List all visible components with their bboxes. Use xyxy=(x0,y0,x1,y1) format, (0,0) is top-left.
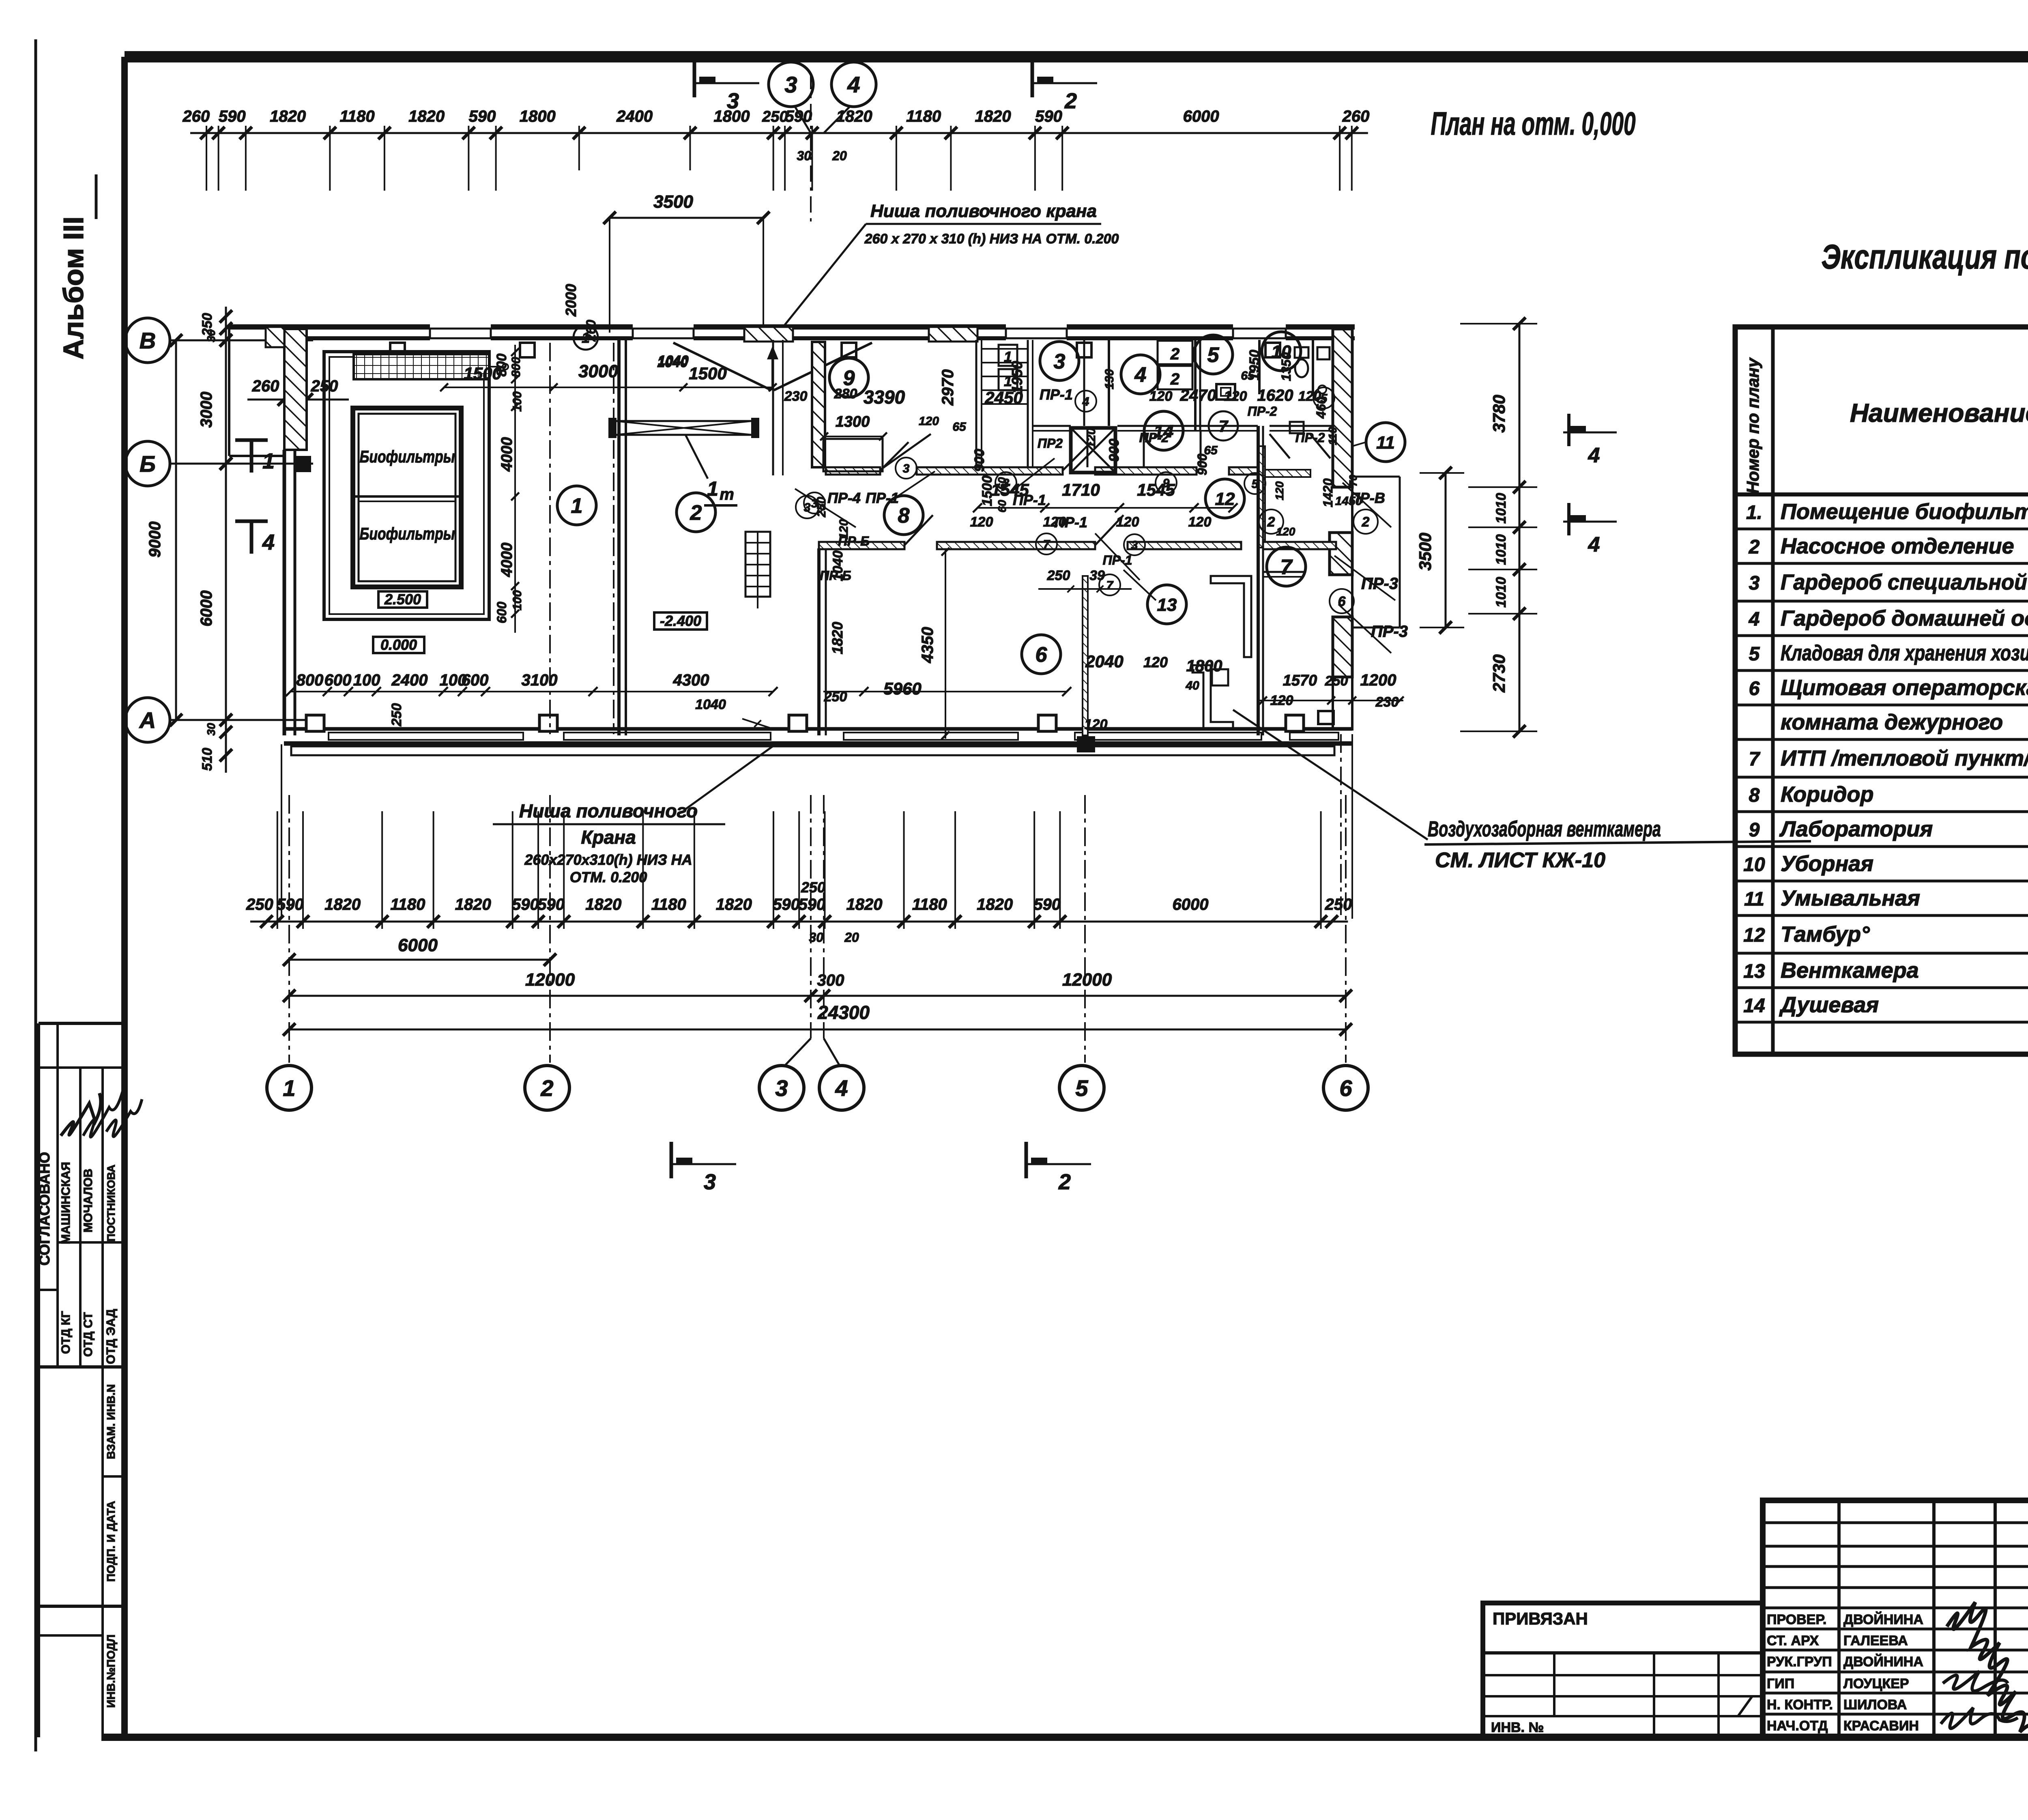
svg-text:590: 590 xyxy=(1035,107,1062,125)
svg-text:Альбом III: Альбом III xyxy=(58,217,89,360)
svg-text:комната дежурного: комната дежурного xyxy=(1781,710,2003,735)
svg-text:590: 590 xyxy=(512,896,539,913)
svg-text:3: 3 xyxy=(784,72,797,97)
svg-text:ВЗАМ. ИНВ.N: ВЗАМ. ИНВ.N xyxy=(105,1384,117,1459)
svg-text:Гардероб специальной одежды: Гардероб специальной одежды xyxy=(1781,570,2028,595)
svg-text:4350: 4350 xyxy=(919,627,937,664)
svg-text:260: 260 xyxy=(252,377,279,395)
svg-text:5960: 5960 xyxy=(883,679,921,698)
svg-text:12000: 12000 xyxy=(1062,970,1112,990)
svg-text:11: 11 xyxy=(1744,889,1764,910)
svg-text:4: 4 xyxy=(847,72,860,97)
svg-text:ЛОУЦКЕР: ЛОУЦКЕР xyxy=(1843,1676,1909,1691)
svg-text:СТ. АРХ: СТ. АРХ xyxy=(1767,1633,1819,1648)
svg-text:5: 5 xyxy=(1075,1075,1088,1101)
svg-text:65: 65 xyxy=(952,420,967,434)
svg-text:8: 8 xyxy=(898,504,910,528)
svg-text:ПР-В: ПР-В xyxy=(1349,490,1385,506)
svg-text:70: 70 xyxy=(1347,475,1359,486)
svg-text:ОТД СТ: ОТД СТ xyxy=(82,1312,95,1357)
svg-text:1040: 1040 xyxy=(695,697,726,712)
svg-text:600: 600 xyxy=(324,671,352,689)
svg-text:7: 7 xyxy=(1106,579,1114,592)
svg-text:13: 13 xyxy=(1743,961,1765,982)
svg-text:Гардероб домашней одежды: Гардероб домашней одежды xyxy=(1781,606,2028,631)
svg-text:6000: 6000 xyxy=(1183,107,1219,125)
svg-text:12: 12 xyxy=(1215,489,1235,509)
svg-text:1350: 1350 xyxy=(1279,352,1293,381)
svg-text:3000: 3000 xyxy=(198,392,215,428)
svg-text:1180: 1180 xyxy=(390,896,425,913)
svg-text:1010: 1010 xyxy=(1493,577,1509,608)
svg-text:20: 20 xyxy=(832,148,847,163)
svg-text:120: 120 xyxy=(1224,389,1247,404)
svg-text:1010: 1010 xyxy=(1493,534,1509,565)
svg-text:13: 13 xyxy=(1157,595,1177,615)
svg-text:60: 60 xyxy=(996,500,1008,513)
svg-text:Кладовая для хранения хозинвен: Кладовая для хранения хозинвентаря xyxy=(1781,641,2028,665)
svg-text:12: 12 xyxy=(1743,925,1765,946)
svg-text:РУК.ГРУП: РУК.ГРУП xyxy=(1767,1654,1832,1670)
svg-text:КРАСАВИН: КРАСАВИН xyxy=(1843,1718,1919,1734)
svg-text:6: 6 xyxy=(1035,643,1048,667)
svg-text:3: 3 xyxy=(1131,539,1138,552)
svg-text:120: 120 xyxy=(1188,514,1212,530)
svg-text:1: 1 xyxy=(283,1075,295,1101)
svg-text:т: т xyxy=(720,486,734,503)
svg-text:ПР-3: ПР-3 xyxy=(1361,575,1398,593)
svg-text:7: 7 xyxy=(1219,417,1229,435)
svg-text:ПР-2: ПР-2 xyxy=(1248,404,1277,419)
svg-text:30: 30 xyxy=(797,148,811,163)
svg-text:Крана: Крана xyxy=(581,827,636,848)
svg-text:Душевая: Душевая xyxy=(1779,993,1879,1017)
svg-text:Щитовая операторская и: Щитовая операторская и xyxy=(1781,676,2028,700)
svg-text:230: 230 xyxy=(1375,694,1399,710)
svg-text:1820: 1820 xyxy=(408,107,445,125)
svg-text:1820: 1820 xyxy=(324,896,361,913)
svg-text:1040: 1040 xyxy=(657,355,688,370)
svg-text:30: 30 xyxy=(205,723,217,736)
svg-text:3: 3 xyxy=(775,1075,788,1101)
svg-text:2.500: 2.500 xyxy=(384,591,421,608)
svg-text:4300: 4300 xyxy=(673,671,709,689)
svg-text:24300: 24300 xyxy=(817,1002,870,1023)
svg-text:1300: 1300 xyxy=(836,413,870,430)
svg-text:9000: 9000 xyxy=(146,522,164,558)
svg-text:Б: Б xyxy=(140,451,156,477)
svg-text:ПР-3: ПР-3 xyxy=(1371,623,1408,640)
svg-text:1820: 1820 xyxy=(585,896,621,913)
svg-text:110: 110 xyxy=(1326,427,1339,445)
svg-text:ШИЛОВА: ШИЛОВА xyxy=(1843,1697,1907,1713)
svg-text:120: 120 xyxy=(1273,481,1286,500)
svg-text:3: 3 xyxy=(727,89,739,113)
svg-text:3: 3 xyxy=(1749,573,1760,594)
svg-text:ПОСТНИКОВА: ПОСТНИКОВА xyxy=(105,1165,117,1242)
svg-text:2: 2 xyxy=(1170,370,1179,388)
svg-text:1820: 1820 xyxy=(716,896,752,913)
svg-text:1200: 1200 xyxy=(1360,671,1396,689)
svg-text:НАЧ.ОТД: НАЧ.ОТД xyxy=(1767,1718,1828,1734)
svg-text:60: 60 xyxy=(996,477,1008,490)
svg-text:3: 3 xyxy=(903,462,910,475)
svg-text:6000: 6000 xyxy=(198,591,215,627)
svg-text:2: 2 xyxy=(1064,89,1077,113)
svg-text:600: 600 xyxy=(462,671,489,689)
svg-text:6: 6 xyxy=(1339,1075,1352,1101)
svg-text:2: 2 xyxy=(1362,514,1370,530)
svg-text:В: В xyxy=(140,328,156,353)
svg-text:510: 510 xyxy=(200,748,215,771)
svg-text:ГАЛЕЕВА: ГАЛЕЕВА xyxy=(1843,1633,1908,1648)
svg-text:250: 250 xyxy=(1047,568,1070,583)
svg-text:1820: 1820 xyxy=(455,896,491,913)
svg-text:260: 260 xyxy=(1342,107,1370,125)
svg-text:ПР2: ПР2 xyxy=(1038,436,1063,451)
svg-text:Н. КОНТР.: Н. КОНТР. xyxy=(1767,1697,1833,1713)
svg-text:ДВОЙНИНА: ДВОЙНИНА xyxy=(1843,1612,1923,1627)
svg-text:1180: 1180 xyxy=(340,107,375,125)
svg-text:5: 5 xyxy=(1207,344,1220,367)
svg-text:300: 300 xyxy=(817,971,844,989)
svg-text:6000: 6000 xyxy=(1173,896,1209,913)
svg-text:11: 11 xyxy=(1376,433,1395,453)
svg-text:590: 590 xyxy=(773,896,800,913)
svg-text:ПРИВЯЗАН: ПРИВЯЗАН xyxy=(1493,1609,1588,1628)
svg-text:Воздухозаборная венткамера: Воздухозаборная венткамера xyxy=(1428,817,1661,841)
svg-text:590: 590 xyxy=(537,896,565,913)
svg-text:1545: 1545 xyxy=(1137,480,1175,499)
svg-text:ПР-Б: ПР-Б xyxy=(820,568,851,583)
svg-text:4: 4 xyxy=(1588,444,1600,467)
svg-text:1180: 1180 xyxy=(906,107,941,125)
svg-text:4: 4 xyxy=(1134,363,1147,387)
svg-text:ИТП /тепловой пункт/.: ИТП /тепловой пункт/. xyxy=(1781,746,2028,771)
svg-text:260 х 270 х 310 (h) НИЗ НА ОТ: 260 х 270 х 310 (h) НИЗ НА ОТМ. 0.200 xyxy=(864,231,1119,247)
svg-text:Экспликация помещений: Экспликация помещений xyxy=(1822,238,2028,276)
svg-text:100: 100 xyxy=(511,590,524,610)
svg-text:1820: 1820 xyxy=(846,896,883,913)
svg-text:230: 230 xyxy=(784,389,808,404)
svg-text:1820: 1820 xyxy=(975,107,1011,125)
svg-text:590: 590 xyxy=(785,107,812,125)
svg-text:100: 100 xyxy=(353,671,380,689)
svg-text:2000: 2000 xyxy=(563,284,579,317)
svg-text:30: 30 xyxy=(205,329,217,342)
svg-text:1: 1 xyxy=(582,329,590,346)
svg-text:250: 250 xyxy=(1325,673,1348,689)
svg-text:3000: 3000 xyxy=(578,361,618,381)
svg-text:1180: 1180 xyxy=(912,896,947,913)
svg-text:14: 14 xyxy=(1743,995,1765,1017)
svg-text:800: 800 xyxy=(509,357,523,377)
svg-text:ПР-1: ПР-1 xyxy=(1013,492,1046,508)
svg-text:65: 65 xyxy=(1241,369,1255,382)
svg-text:7: 7 xyxy=(1280,556,1293,579)
svg-text:120: 120 xyxy=(1143,654,1168,670)
svg-text:250: 250 xyxy=(801,879,825,896)
svg-text:120: 120 xyxy=(1116,514,1139,530)
svg-text:1800: 1800 xyxy=(520,107,556,125)
svg-text:ПОДП. И ДАТА: ПОДП. И ДАТА xyxy=(105,1501,117,1581)
svg-text:120: 120 xyxy=(1149,389,1173,404)
svg-text:900: 900 xyxy=(972,449,987,472)
svg-text:120: 120 xyxy=(1085,428,1098,448)
svg-text:4: 4 xyxy=(835,1075,848,1101)
svg-text:Умывальная: Умывальная xyxy=(1781,886,1920,911)
svg-text:1820: 1820 xyxy=(836,107,872,125)
svg-text:План на отм. 0,000: План на отм. 0,000 xyxy=(1431,105,1636,142)
svg-text:1500: 1500 xyxy=(689,364,726,383)
svg-text:Коридор: Коридор xyxy=(1781,782,1873,807)
svg-text:250: 250 xyxy=(815,497,828,518)
svg-text:Биофильтры: Биофильтры xyxy=(360,524,455,543)
svg-text:ПРОВЕР.: ПРОВЕР. xyxy=(1767,1612,1826,1627)
svg-text:4000: 4000 xyxy=(498,543,516,578)
svg-text:1820: 1820 xyxy=(829,622,846,654)
svg-text:Венткамера: Венткамера xyxy=(1781,958,1919,983)
svg-text:ПР-4: ПР-4 xyxy=(827,490,861,506)
svg-text:250: 250 xyxy=(762,108,788,125)
svg-text:Уборная: Уборная xyxy=(1781,852,1873,876)
svg-text:1800: 1800 xyxy=(1186,657,1222,675)
svg-text:250: 250 xyxy=(1325,896,1352,913)
svg-text:590: 590 xyxy=(798,896,825,913)
svg-text:590: 590 xyxy=(469,107,496,125)
svg-text:120: 120 xyxy=(970,514,993,530)
svg-text:ПР-1: ПР-1 xyxy=(866,490,899,506)
svg-text:Тамбур°: Тамбур° xyxy=(1781,922,1870,947)
svg-text:8: 8 xyxy=(1749,785,1760,806)
svg-text:1420: 1420 xyxy=(1321,478,1335,507)
svg-text:ПР-1: ПР-1 xyxy=(1103,553,1132,567)
svg-text:1820: 1820 xyxy=(977,896,1013,913)
svg-text:А: А xyxy=(139,707,156,733)
svg-text:7: 7 xyxy=(1749,749,1761,770)
svg-text:3: 3 xyxy=(1054,350,1066,374)
svg-text:280: 280 xyxy=(834,386,857,402)
svg-text:ПР-Б: ПР-Б xyxy=(838,534,870,548)
svg-text:800: 800 xyxy=(296,671,324,689)
svg-text:Биофильтры: Биофильтры xyxy=(360,447,455,466)
svg-text:2400: 2400 xyxy=(391,671,428,689)
svg-text:5: 5 xyxy=(1252,477,1259,491)
svg-text:2: 2 xyxy=(1267,514,1275,530)
svg-text:900: 900 xyxy=(1106,439,1122,462)
svg-text:1: 1 xyxy=(262,449,275,473)
svg-text:39: 39 xyxy=(1089,568,1105,583)
svg-text:3500: 3500 xyxy=(653,192,693,212)
svg-text:2450: 2450 xyxy=(984,388,1023,407)
svg-text:120: 120 xyxy=(919,415,939,428)
svg-text:6000: 6000 xyxy=(398,935,438,955)
svg-text:20: 20 xyxy=(844,930,859,945)
svg-text:4: 4 xyxy=(262,530,275,554)
svg-text:3780: 3780 xyxy=(1489,395,1508,432)
svg-text:2: 2 xyxy=(690,501,702,525)
svg-text:ДВОЙНИНА: ДВОЙНИНА xyxy=(1843,1654,1923,1670)
svg-text:590: 590 xyxy=(1033,896,1061,913)
svg-text:Ниша поливочного: Ниша поливочного xyxy=(519,800,698,821)
svg-text:1.: 1. xyxy=(1746,502,1762,524)
svg-text:900: 900 xyxy=(1195,453,1209,475)
svg-text:600: 600 xyxy=(494,602,509,623)
svg-text:ПР-1: ПР-1 xyxy=(1040,386,1073,403)
svg-text:1180: 1180 xyxy=(651,896,686,913)
svg-text:ГИП: ГИП xyxy=(1767,1676,1794,1691)
svg-text:7: 7 xyxy=(1043,538,1051,551)
svg-text:Ниша поливочного крана: Ниша поливочного крана xyxy=(870,201,1097,221)
svg-text:1710: 1710 xyxy=(1062,480,1100,499)
svg-text:3390: 3390 xyxy=(864,387,905,408)
svg-text:ИНВ. №: ИНВ. № xyxy=(1491,1720,1544,1735)
svg-text:0.000: 0.000 xyxy=(380,636,417,653)
svg-text:МАШИНСКАЯ: МАШИНСКАЯ xyxy=(59,1162,73,1244)
svg-text:2470: 2470 xyxy=(1180,387,1216,404)
svg-text:4000: 4000 xyxy=(498,437,516,472)
svg-text:1820: 1820 xyxy=(270,107,306,125)
svg-text:Наименование: Наименование xyxy=(1850,398,2028,428)
svg-text:ИНВ.№ПОДЛ: ИНВ.№ПОДЛ xyxy=(105,1635,117,1708)
svg-text:1500: 1500 xyxy=(980,475,995,506)
svg-text:460: 460 xyxy=(1314,397,1328,419)
svg-text:10: 10 xyxy=(1743,854,1765,876)
svg-text:2: 2 xyxy=(1749,537,1760,558)
svg-text:260: 260 xyxy=(182,107,210,125)
svg-text:1010: 1010 xyxy=(1493,493,1509,524)
svg-text:Помещение биофильтров: Помещение биофильтров xyxy=(1781,500,2028,524)
svg-text:2970: 2970 xyxy=(939,370,957,406)
svg-text:3100: 3100 xyxy=(522,671,558,689)
svg-text:ПР-2: ПР-2 xyxy=(1295,430,1325,445)
svg-text:3500: 3500 xyxy=(1416,533,1435,570)
svg-text:2: 2 xyxy=(1058,1170,1071,1194)
svg-text:Лаборатория: Лаборатория xyxy=(1779,817,1933,841)
svg-text:ОТД КГ: ОТД КГ xyxy=(59,1311,73,1354)
svg-text:ПР-1: ПР-1 xyxy=(1054,514,1087,531)
svg-text:ОТМ. 0.200: ОТМ. 0.200 xyxy=(570,869,647,885)
svg-text:6: 6 xyxy=(1749,678,1760,700)
svg-text:3: 3 xyxy=(704,1170,716,1194)
svg-text:1: 1 xyxy=(571,494,583,518)
svg-text:5: 5 xyxy=(1749,643,1760,665)
svg-text:4: 4 xyxy=(1749,609,1760,630)
svg-text:130: 130 xyxy=(1103,369,1116,389)
svg-text:4: 4 xyxy=(1588,533,1600,557)
svg-text:МОЧАЛОВ: МОЧАЛОВ xyxy=(82,1169,95,1233)
svg-text:2: 2 xyxy=(540,1075,553,1101)
svg-text:40: 40 xyxy=(1185,679,1199,692)
svg-text:1620: 1620 xyxy=(1257,387,1293,404)
svg-text:590: 590 xyxy=(277,896,304,913)
svg-text:2400: 2400 xyxy=(616,107,653,125)
svg-text:Насосное отделение: Насосное отделение xyxy=(1781,534,2014,559)
svg-text:2040: 2040 xyxy=(1085,652,1123,671)
svg-text:120: 120 xyxy=(1085,717,1108,732)
svg-text:260х270х310(h) НИЗ НА: 260х270х310(h) НИЗ НА xyxy=(524,851,692,868)
svg-text:-2.400: -2.400 xyxy=(660,612,701,629)
svg-text:590: 590 xyxy=(219,107,246,125)
svg-text:1500: 1500 xyxy=(464,364,501,383)
svg-text:СМ. ЛИСТ КЖ-10: СМ. ЛИСТ КЖ-10 xyxy=(1435,849,1605,872)
svg-text:1570: 1570 xyxy=(1283,672,1317,689)
svg-text:СОГЛАСОВАНО: СОГЛАСОВАНО xyxy=(36,1152,53,1266)
svg-text:120: 120 xyxy=(1276,525,1295,538)
svg-text:250: 250 xyxy=(246,896,273,913)
svg-text:ОТД ЭАД: ОТД ЭАД xyxy=(104,1309,118,1364)
svg-text:ПР-2: ПР-2 xyxy=(1139,430,1169,445)
svg-text:Номер по плану: Номер по плану xyxy=(1743,357,1762,494)
svg-text:9: 9 xyxy=(1749,819,1760,841)
svg-text:4: 4 xyxy=(1082,395,1089,408)
svg-text:2730: 2730 xyxy=(1489,654,1508,692)
svg-text:2: 2 xyxy=(1170,345,1179,363)
svg-text:250: 250 xyxy=(389,703,404,727)
